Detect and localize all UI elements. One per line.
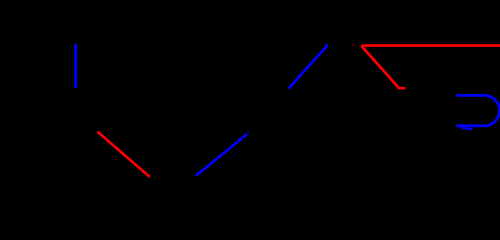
arrowhead barb at lower-left end of hook G (462, 128, 473, 129)
stray blue dot near C tip (247, 131, 249, 133)
faint red dot left of E/F junction (353, 44, 355, 46)
blue half-ellipse hook G (right-opening horseshoe) (456, 95, 499, 125)
red horizontal ray segment F running off right edge (361, 44, 500, 47)
blue diagonal ray segment C (196, 134, 247, 176)
short horizontal red tail at end of E (398, 87, 406, 90)
blue diagonal ray segment D (288, 46, 327, 89)
small flat tip at top of D (325, 44, 328, 46)
red diagonal ray segment E (361, 46, 399, 88)
red diagonal ray segment B (97, 132, 149, 177)
blue vertical ray segment A (74, 44, 77, 88)
